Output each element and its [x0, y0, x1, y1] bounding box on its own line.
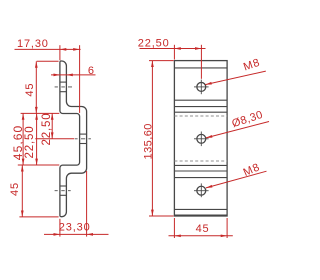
hole bottom front view: [194, 183, 209, 197]
svg-text:45: 45: [196, 223, 210, 235]
svg-text:17,30: 17,30: [17, 38, 49, 50]
svg-text:22,50: 22,50: [24, 125, 36, 158]
hole bottom (side view) edge lines: [60, 185, 67, 187]
dimension 22,50 lower: [24, 113, 38, 165]
dimension 45 top: [24, 61, 59, 113]
extension line lower web: [18, 164, 60, 166]
front view upper hidden line: [174, 115, 227, 117]
dimension 45 bottom right: [169, 218, 233, 238]
svg-text:45: 45: [9, 182, 21, 196]
front view upper bend lines: [174, 99, 227, 101]
dimension 17,30: [15, 38, 81, 113]
dimension 22,50 upper: [41, 112, 53, 145]
dimension 45,60: [11, 113, 25, 165]
svg-text:23,30: 23,30: [59, 221, 91, 233]
hole middle front view: [194, 132, 209, 147]
hole middle (side view) edge lines: [80, 133, 87, 135]
hole middle center line: [75, 138, 91, 140]
extension line upper web: [21, 112, 60, 114]
svg-text:45: 45: [24, 83, 36, 97]
front view lower hidden line: [174, 160, 227, 162]
left view profile outline: [60, 61, 87, 217]
leader M8 top: [205, 57, 265, 85]
svg-text:22,50: 22,50: [138, 38, 170, 50]
dimension 45 bottom-left: [9, 165, 58, 217]
dimension 135,60: [142, 61, 173, 216]
hole bottom center line: [55, 190, 71, 192]
front view top fold line: [174, 67, 227, 69]
dimension 6: [51, 65, 96, 77]
leader diameter 8,30: [206, 109, 269, 138]
leader M8 bottom: [206, 161, 267, 188]
front view bottom edge reinforcement: [174, 214, 227, 216]
front view bottom fold line: [174, 208, 227, 210]
hole top (side view) edge lines: [60, 81, 67, 83]
hole top center line: [55, 86, 72, 88]
front view lower bend lines: [174, 164, 227, 166]
extension line middle hole center: [35, 138, 74, 140]
dimension 22,50 top right: [138, 38, 206, 79]
dimension 23,30: [44, 171, 109, 237]
hole top front view: [194, 80, 209, 95]
front view outline: [174, 61, 227, 216]
